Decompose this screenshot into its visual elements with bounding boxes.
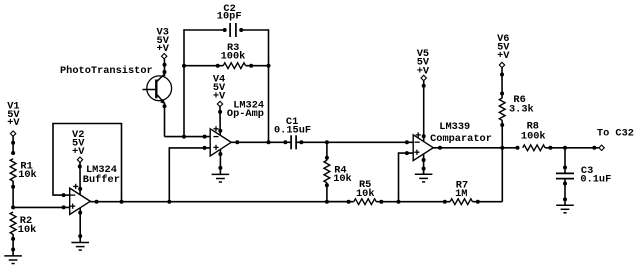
svg-text:1M: 1M: [455, 188, 467, 200]
wire R5 left lead: [327, 201, 354, 203]
node A junction: [182, 135, 186, 139]
ground under R2: [4, 255, 22, 257]
wire V6 terminal to R6: [501, 68, 503, 98]
ground under comparator: [415, 173, 433, 175]
wire V3 to phototransistor collector: [163, 59, 165, 76]
capacitor C1: [290, 135, 292, 149]
wire divider node to buffer + input: [13, 206, 70, 208]
svg-text:10pF: 10pF: [217, 11, 242, 23]
resistor R3: [223, 63, 245, 69]
ground under buffer: [71, 242, 89, 244]
wire V2 to buffer power pin: [79, 162, 81, 194]
node feedback to output: [267, 140, 271, 144]
svg-text:+V: +V: [157, 43, 170, 55]
wire buffer output: [90, 201, 169, 203]
wire buffer - input lead: [64, 194, 70, 196]
wire R5 right lead: [376, 201, 398, 203]
wire R7 right lead: [473, 201, 503, 203]
comparator U3 LM339: [413, 135, 433, 161]
resistor R6: [499, 98, 505, 120]
wire R8 to terminal: [545, 147, 598, 149]
node output junction: [500, 146, 504, 150]
node R3 right junction: [267, 64, 271, 68]
svg-text:10k: 10k: [333, 173, 352, 185]
svg-text:Comparator: Comparator: [430, 133, 492, 145]
wire output row left: [169, 201, 348, 203]
wire feedback right vertical: [268, 29, 270, 142]
capacitor C3: [556, 172, 574, 174]
wire R2 to ground: [12, 234, 14, 256]
wire buffer feedback loop: [53, 124, 122, 202]
wire comparator ground stub: [423, 154, 425, 175]
wire C3 bottom lead: [564, 179, 566, 205]
svg-text:0.1uF: 0.1uF: [580, 174, 611, 186]
wire R3 right lead: [246, 65, 269, 67]
ground under C3: [556, 204, 574, 206]
svg-text:Buffer: Buffer: [83, 174, 120, 186]
wire op-amp ground stub: [219, 150, 221, 175]
svg-text:10k: 10k: [18, 224, 37, 236]
svg-text:+V: +V: [213, 91, 226, 103]
node C3 junction: [563, 146, 567, 150]
svg-text:+V: +V: [497, 50, 510, 62]
svg-text:+V: +V: [7, 117, 20, 129]
wire phototransistor emitter down: [164, 103, 166, 136]
phototransistor Q1: [147, 76, 172, 101]
svg-text:3.3k: 3.3k: [509, 104, 534, 116]
svg-text:LM339: LM339: [439, 121, 470, 133]
wire R6 bottom lead: [501, 120, 503, 147]
wire V5 to comparator power pin: [423, 81, 425, 142]
svg-text:100k: 100k: [521, 130, 546, 142]
svg-text:Op-Amp: Op-Amp: [227, 108, 264, 120]
resistor R1: [10, 159, 16, 181]
resistor R8: [523, 145, 545, 151]
wire C3 top lead: [564, 148, 566, 173]
node divider junction: [11, 205, 15, 209]
resistor R4: [324, 160, 330, 182]
svg-text:10k: 10k: [356, 188, 375, 200]
wire top feedback left: [184, 29, 225, 31]
wire R4 top lead: [326, 142, 328, 160]
resistor R5: [354, 199, 376, 205]
wire feedback left vertical: [183, 29, 185, 136]
op-amp U2 LM324 Op-Amp: [210, 129, 231, 156]
svg-text:+V: +V: [72, 146, 85, 158]
wire op-amp + input lead: [169, 148, 210, 202]
wire R4 bottom lead: [326, 183, 328, 202]
svg-text:PhotoTransistor: PhotoTransistor: [60, 65, 153, 77]
wire R3 left lead: [184, 65, 223, 67]
wire V1 terminal to R1: [12, 136, 14, 153]
node R4 bottom junction: [325, 200, 329, 204]
node R3 left junction: [182, 64, 186, 68]
resistor R2: [10, 212, 16, 234]
wire V4 to op-amp power pin: [219, 107, 221, 135]
wire comparator output: [433, 147, 517, 149]
node op-amp + to output row: [167, 200, 171, 204]
wire top feedback right: [241, 29, 268, 31]
svg-text:0.15uF: 0.15uF: [274, 124, 311, 136]
wire node A row: [165, 136, 211, 138]
wire to R7: [399, 201, 451, 203]
wire R7 feedback vertical: [501, 148, 503, 202]
terminal To C32: [599, 145, 604, 150]
wire R1 to node: [12, 181, 14, 208]
resistor R7: [450, 199, 472, 205]
node buffer feedback to output row: [120, 200, 124, 204]
wire op-amp output: [231, 141, 291, 143]
wire comparator + input: [399, 153, 414, 202]
svg-text:To C32: To C32: [597, 127, 634, 139]
wire buffer ground stub: [79, 208, 81, 243]
wire C1 to comparator - input: [296, 141, 413, 143]
capacitor C2: [229, 23, 231, 37]
node comparator + junction: [397, 200, 401, 204]
svg-text:10k: 10k: [18, 169, 37, 181]
svg-text:100k: 100k: [221, 51, 246, 63]
op-amp U1 LM324 Buffer: [70, 188, 91, 214]
ground under op-amp U2: [212, 173, 230, 175]
node R4 top junction: [325, 140, 329, 144]
